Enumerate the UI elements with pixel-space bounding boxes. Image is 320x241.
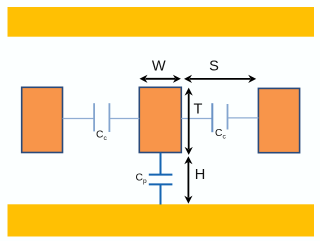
dimension arrow H (height above ground plane) <box>184 156 192 203</box>
capacitor Cc2 right plate <box>227 104 229 130</box>
capacitor Cc2 left plate <box>211 103 213 132</box>
capacitor Cc1 left plate <box>93 103 95 131</box>
conductor center (rectangle) <box>139 87 181 152</box>
svg-text:S: S <box>209 59 219 75</box>
wire center conductor down to Cp <box>160 153 162 174</box>
svg-text:T: T <box>194 101 203 117</box>
wire left-conductor to Cc1 <box>63 118 94 120</box>
dimension arrow T (thickness of conductor) <box>185 88 193 155</box>
dimension arrow S (spacing between conductors) <box>184 75 256 83</box>
top ground plane <box>8 7 315 37</box>
wire Cp to bottom ground plane <box>160 185 162 205</box>
dimension arrow W (width of center conductor) <box>140 75 181 83</box>
wire Cc2 to right conductor <box>228 117 258 119</box>
capacitor Cp bottom plate <box>149 183 173 185</box>
wire Cc1 to center conductor <box>110 118 139 120</box>
capacitor Cp top plate <box>149 174 173 176</box>
svg-text:W: W <box>152 59 166 75</box>
svg-text:H: H <box>195 167 206 183</box>
wire center conductor to Cc2 <box>181 118 211 120</box>
capacitor Cc1 right plate <box>108 103 110 132</box>
bottom ground plane <box>8 204 315 236</box>
conductor right (rectangle) <box>258 88 299 152</box>
conductor left (rectangle) <box>22 87 63 152</box>
